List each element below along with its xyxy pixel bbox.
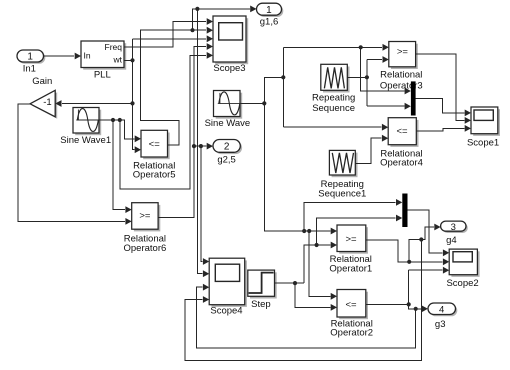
svg-text:Relational: Relational <box>380 70 422 81</box>
svg-text:Scope1: Scope1 <box>467 138 499 149</box>
svg-text:Scope2: Scope2 <box>446 278 478 289</box>
svg-text:Sine Wave1: Sine Wave1 <box>60 135 111 146</box>
svg-text:Operator6: Operator6 <box>124 243 167 254</box>
svg-text:-1: -1 <box>43 97 51 108</box>
PLL block <box>81 41 126 80</box>
wire RelOp4 output -> Scope1.in3 <box>416 125 471 132</box>
svg-text:Operator2: Operator2 <box>330 328 373 339</box>
wire Step -> up -> RelOp1.in2 <box>304 242 337 284</box>
wire Gain output -> down -> RelOp6.in2 <box>18 104 132 225</box>
wire Repeating Sequence output -> RelOp3.in2 / Mux1.in2 <box>347 56 411 110</box>
Repeating Sequence block <box>312 64 355 114</box>
wire branch down/left -> Scope4.in3 <box>196 284 415 348</box>
output port g3 (oval 4) <box>428 303 457 330</box>
wire branch -> g2,5 oval <box>194 143 213 150</box>
wire Repeating Sequence1 output -> RelOp4.in2 <box>355 135 388 164</box>
Sine Wave block <box>205 91 251 130</box>
wire branch -> Mux1.in1 <box>361 47 411 94</box>
wire Sine Wave output junction <box>240 101 266 105</box>
svg-text:4: 4 <box>439 304 444 315</box>
Repeating Sequence1 block <box>318 150 366 199</box>
svg-text:Gain: Gain <box>32 76 52 87</box>
svg-text:PLL: PLL <box>94 69 111 80</box>
wire RelOp2 output -> g3 oval <box>366 302 428 312</box>
output port g1,6 (oval 1) <box>257 3 284 27</box>
Relational Operator4 block <box>380 118 423 169</box>
Gain label <box>32 76 52 87</box>
wire branch -> Mux2.in2 <box>317 215 403 245</box>
svg-text:g4: g4 <box>446 235 457 246</box>
svg-text:2: 2 <box>224 142 230 153</box>
wire SineWave1 branch -> Scope3.in5 <box>120 52 213 189</box>
Relational Operator2 block <box>330 290 373 339</box>
wire Sine Wave1 output -> RelOp5.in1 (with junctions) <box>99 118 141 142</box>
svg-text:Scope4: Scope4 <box>210 306 242 317</box>
svg-text:g1,6: g1,6 <box>260 17 279 28</box>
Scope2 block <box>446 249 479 289</box>
gain triangle -1 <box>30 90 57 119</box>
wire RelOp5 output -> up -> Scope3.in2 <box>140 27 213 145</box>
svg-text:Operator4: Operator4 <box>380 158 423 169</box>
wire branch up -> Scope2.in3 <box>409 267 450 305</box>
svg-text:1: 1 <box>27 52 33 63</box>
svg-text:Operator5: Operator5 <box>133 170 176 181</box>
output port g4 (oval 3) <box>441 221 468 246</box>
svg-text:>=: >= <box>345 234 357 245</box>
svg-text:<=: <= <box>396 126 408 137</box>
wire rail top -> RelOp3.in1 <box>283 44 389 51</box>
arrowhead RelOp6.in1 <box>125 206 131 213</box>
svg-text:Operator1: Operator1 <box>329 263 372 274</box>
wire branch up -> g4 node <box>409 237 423 261</box>
svg-text:Sequence: Sequence <box>312 103 355 114</box>
svg-text:Sine Wave: Sine Wave <box>205 118 251 129</box>
svg-text:<=: <= <box>345 299 357 310</box>
wire branch -> RelOp2.in1 <box>309 231 337 300</box>
wire RelOp6 output -> up -> Scope3.in4 <box>158 43 213 217</box>
Sine Wave1 block <box>60 108 111 146</box>
wire Step -> down -> RelOp2.in2 <box>295 283 337 311</box>
Scope3 block <box>213 16 248 74</box>
wire branch -> Mux2.in1 <box>304 199 402 231</box>
wire SineWave1 branch -> RelOp6.in1 <box>113 120 125 210</box>
wire SineWave -> down -> RelOp1.in1 <box>264 103 337 234</box>
svg-text:Step: Step <box>251 299 271 310</box>
svg-text:g3: g3 <box>435 319 446 330</box>
mux Mux1 (black bar) <box>411 81 416 115</box>
svg-text:Sequence1: Sequence1 <box>318 189 366 200</box>
wire Mux1 output -> Scope1.in1 <box>416 98 471 116</box>
wire branch g1,6 node -> down -> Scope4.in2 <box>197 9 209 277</box>
Relational Operator3 block <box>380 42 423 92</box>
wire g4 node -> oval 3 <box>421 224 440 240</box>
wire Mux2 output -> Scope2.in1 <box>408 210 450 256</box>
wire net PLL.wt trunk (down to Gain / RelOp5.in2, up to Scope3.in3) <box>124 35 213 153</box>
wire In1 -> PLL.In <box>44 53 82 60</box>
svg-text:1: 1 <box>266 5 272 16</box>
wire RelOp1 output -> Scope2.in2 <box>366 240 449 265</box>
wire branch g2,5 node -> down -> Scope4.in1 <box>201 146 209 265</box>
svg-text:3: 3 <box>451 222 456 233</box>
Step block <box>248 270 277 310</box>
svg-text:g2,5: g2,5 <box>217 154 236 165</box>
Relational Operator5 block <box>133 130 176 180</box>
svg-text:Scope3: Scope3 <box>213 63 245 74</box>
Relational Operator6 block <box>124 203 167 254</box>
wire Step output junction <box>275 281 305 285</box>
wire RelOp3 output -> Scope1.in2 <box>416 54 471 124</box>
output port g2,5 (oval 2) <box>213 140 242 166</box>
Relational Operator1 block <box>329 225 372 274</box>
mux Mux2 (black bar) <box>402 194 407 228</box>
Scope1 block <box>467 107 500 149</box>
wire PLL.Freq -> up -> Scope3.in1 <box>124 18 213 47</box>
svg-text:<=: <= <box>149 139 161 150</box>
svg-text:>=: >= <box>139 211 151 222</box>
wire g4 node -> down/left -> Scope4.in4 <box>185 240 422 361</box>
svg-text:Operator3: Operator3 <box>380 81 423 92</box>
wire branch -> g1,6 line <box>193 6 257 31</box>
wire wt -> Gain input <box>55 100 132 107</box>
svg-text:>=: >= <box>397 47 409 58</box>
wire rail bottom -> RelOp4.in1 <box>283 124 388 131</box>
svg-text:In1: In1 <box>23 64 36 75</box>
svg-text:wt: wt <box>113 55 123 65</box>
Scope4 block <box>209 258 247 316</box>
svg-text:In: In <box>84 51 91 61</box>
input port In1 (oval 1) <box>17 50 45 75</box>
svg-text:Freq: Freq <box>105 42 123 52</box>
wire SineWave -> up -> RelOp3.in1 / RelOp4.in1 rail <box>264 45 363 127</box>
